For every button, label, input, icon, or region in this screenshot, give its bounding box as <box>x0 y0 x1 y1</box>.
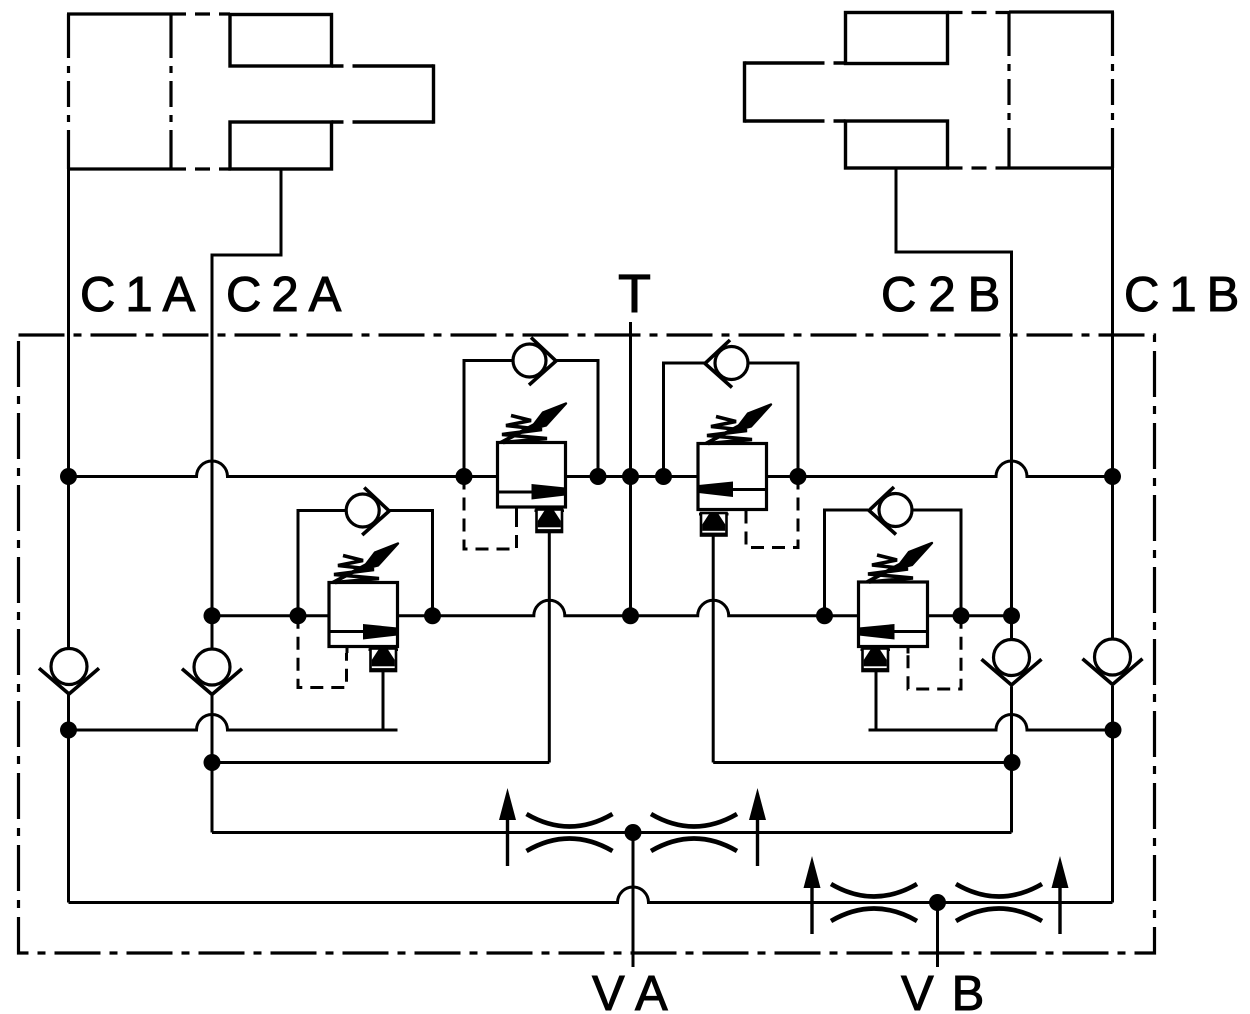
wire line C (C2A-VA-C2B) <box>212 831 1012 834</box>
phantom connector bottom left <box>171 167 231 170</box>
pilot line V2 dashed <box>746 477 798 548</box>
wire T port line <box>629 322 632 616</box>
wire VA stem <box>632 833 635 968</box>
wire C1A lower segment <box>67 694 70 903</box>
phantom connector top right <box>948 11 1010 14</box>
counterbalance valve V1 body <box>498 443 566 508</box>
venturi VB right <box>956 884 1042 921</box>
svg-text:C1A: C1A <box>80 268 205 322</box>
piston yoke B lower rect <box>846 121 948 168</box>
yoke A lower arm <box>332 120 363 123</box>
V1 spring <box>501 404 566 443</box>
wire V3 bypass loop <box>298 511 346 616</box>
piston yoke B upper rect <box>846 13 948 64</box>
venturi VA right <box>651 814 737 851</box>
V4 pilot stub <box>907 647 910 654</box>
check valve C1B <box>1083 639 1143 685</box>
wire C1A port line <box>67 140 70 649</box>
V2 spring <box>706 405 771 444</box>
venturi VA left <box>527 814 613 851</box>
wire C2B lower segment <box>1010 687 1013 833</box>
wire V2 bypass loop <box>664 363 706 477</box>
wire C1B lower segment <box>1111 686 1114 903</box>
V4 spring <box>867 543 932 582</box>
wire V1 bypass loop <box>464 361 513 477</box>
counterbalance valve V2 body <box>698 444 767 510</box>
cylinder rectangle left (C1A actuator) <box>67 14 171 169</box>
arrow VB left <box>804 856 821 934</box>
V3 spring <box>333 544 398 583</box>
phantom connector bottom right <box>948 166 1010 169</box>
yoke B arm end <box>743 61 746 122</box>
wire C2A lower segment <box>211 693 214 833</box>
wire VB stem <box>936 903 939 968</box>
wire C2A port line from yoke A <box>212 169 281 649</box>
wire drain line B left <box>212 761 549 764</box>
wire bottom rail (C1A-VB-C1B) with hop over VA <box>69 887 1113 903</box>
V4 flow arrow <box>893 630 928 633</box>
V3 pilot stub <box>346 647 349 654</box>
wire rail 2 with hops over pilot drains <box>212 600 1012 616</box>
counterbalance valve V4 body <box>859 582 928 647</box>
pilot element V4 <box>861 649 891 672</box>
node rail2 junctions <box>204 607 1021 624</box>
pilot line V3 dashed <box>298 616 347 688</box>
yoke A arm end <box>432 64 435 123</box>
node rail1 junctions <box>60 468 1121 485</box>
yoke A upper arm <box>332 64 363 67</box>
check valve V2 <box>705 340 748 388</box>
yoke B lower arm <box>815 119 846 122</box>
yoke B upper arm <box>815 61 846 64</box>
boundary block dash-dot rectangle <box>19 335 1155 953</box>
arrow VA right <box>749 788 766 866</box>
pilot element V3 <box>369 649 399 672</box>
node drain line junctions <box>60 722 1122 912</box>
cylinder rectangle right (C1B actuator) <box>1009 12 1114 168</box>
pilot line V4 dashed <box>908 616 961 689</box>
check valve V3 <box>346 488 389 536</box>
pilot element V2 <box>699 513 729 536</box>
check valve C2A <box>182 649 242 695</box>
arrow VB right <box>1052 856 1069 934</box>
wire V4 spring drain <box>875 671 878 730</box>
phantom connector top left <box>171 12 230 15</box>
piston yoke A upper rect <box>230 15 332 67</box>
svg-text:VB: VB <box>901 967 1002 1014</box>
pilot line V1 dashed <box>464 477 517 550</box>
wire drain line A left with hop over C2A <box>69 714 398 730</box>
arrow VA left <box>499 788 516 866</box>
wire V1 spring drain <box>548 532 551 763</box>
V1 flow arrow <box>498 491 534 494</box>
counterbalance valve V3 body <box>329 583 398 647</box>
piston yoke A lower rect <box>230 122 332 169</box>
venturi VB left <box>831 884 917 921</box>
svg-text:VA: VA <box>592 967 682 1014</box>
svg-text:C2B: C2B <box>881 268 1012 322</box>
wire drain line B right <box>713 761 1012 764</box>
wire V2 spring drain <box>712 536 715 763</box>
V3 flow arrow <box>329 630 365 633</box>
V2 flow arrow <box>732 488 767 491</box>
pilot element V1 <box>535 510 565 533</box>
check valve V1 <box>513 338 556 386</box>
wire rail 1 with hops over C2A and C2B <box>69 461 1113 477</box>
check valve V4 <box>869 487 912 535</box>
svg-text:T: T <box>618 264 651 324</box>
svg-text:C1B: C1B <box>1124 268 1249 322</box>
wire V4 bypass loop <box>825 510 869 616</box>
svg-text:C2A: C2A <box>226 268 351 322</box>
V1 pilot stub <box>515 507 518 514</box>
check valve C1A <box>39 649 99 695</box>
wire C2B port line from yoke B <box>896 168 1012 640</box>
V2 pilot stub <box>745 510 748 518</box>
wire V3 spring drain <box>382 671 385 730</box>
wire C1B port line <box>1111 168 1114 639</box>
check valve C2B <box>982 640 1042 686</box>
wire drain line A right with hop over C2B <box>869 714 1114 730</box>
